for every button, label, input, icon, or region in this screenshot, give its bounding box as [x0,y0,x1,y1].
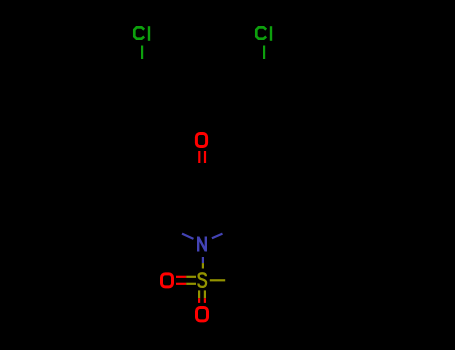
bond N1-S (olive lower half) [202,263,204,268]
double bond S1=O3 (red halves) [199,298,205,303]
double bond C4=O1 [199,151,205,163]
bond N1-C6 (blue half, up-right) [212,234,223,239]
double bond S1=O2 (red halves) [176,277,186,284]
atom S1 (sulfonyl sulfur) [198,273,206,287]
atom Cl2 (right chlorine label) [256,26,271,41]
bond C-Cl2 (green half) [263,46,265,60]
atom O2 (sulfonyl oxygen, left) [162,274,173,287]
atom O3 (sulfonyl oxygen, bottom) [197,308,208,321]
bond C-Cl1 (green half) [141,46,143,60]
bond N1-C2 (blue half, up-left) [182,234,194,239]
double bond S1=O2 (olive halves) [186,277,196,284]
bond S1-CH3 (olive half, to methyl) [210,279,225,281]
atom N1 (ring nitrogen) [198,237,206,252]
bond N1-S (blue upper half) [202,257,204,263]
atom O1 (ketone oxygen) [196,134,206,147]
atom Cl1 (left chlorine label) [134,26,149,41]
double bond S1=O3 (olive halves, downward) [199,290,205,298]
